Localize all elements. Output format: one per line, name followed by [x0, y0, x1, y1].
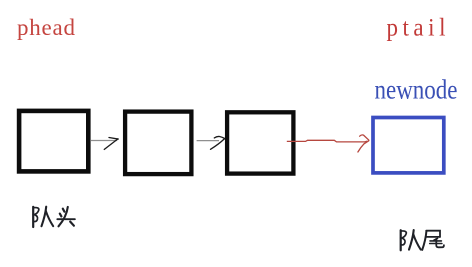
- label 队尾 (queue tail): [401, 230, 444, 250]
- wire red arrow head: [358, 135, 369, 152]
- svg-text:newnode: newnode: [375, 75, 458, 105]
- 队 char: [33, 207, 53, 227]
- wire red arrow shaft: [287, 140, 368, 142]
- svg-text:phead: phead: [17, 15, 76, 40]
- wire arrow1 shaft: [91, 140, 117, 142]
- node box1: [19, 111, 88, 171]
- node box2: [125, 112, 191, 175]
- wire arrow2 head: [211, 136, 225, 149]
- 尾 char: [422, 231, 444, 250]
- 队 char: [401, 230, 421, 250]
- node newnode box (blue): [373, 118, 444, 173]
- 头 char: [57, 207, 75, 226]
- label 队头 (queue head): [33, 207, 75, 227]
- node box3: [227, 112, 293, 173]
- svg-text:ptail: ptail: [387, 14, 446, 42]
- wire arrow2 shaft: [197, 140, 219, 142]
- wire arrow1 head: [104, 138, 118, 150]
